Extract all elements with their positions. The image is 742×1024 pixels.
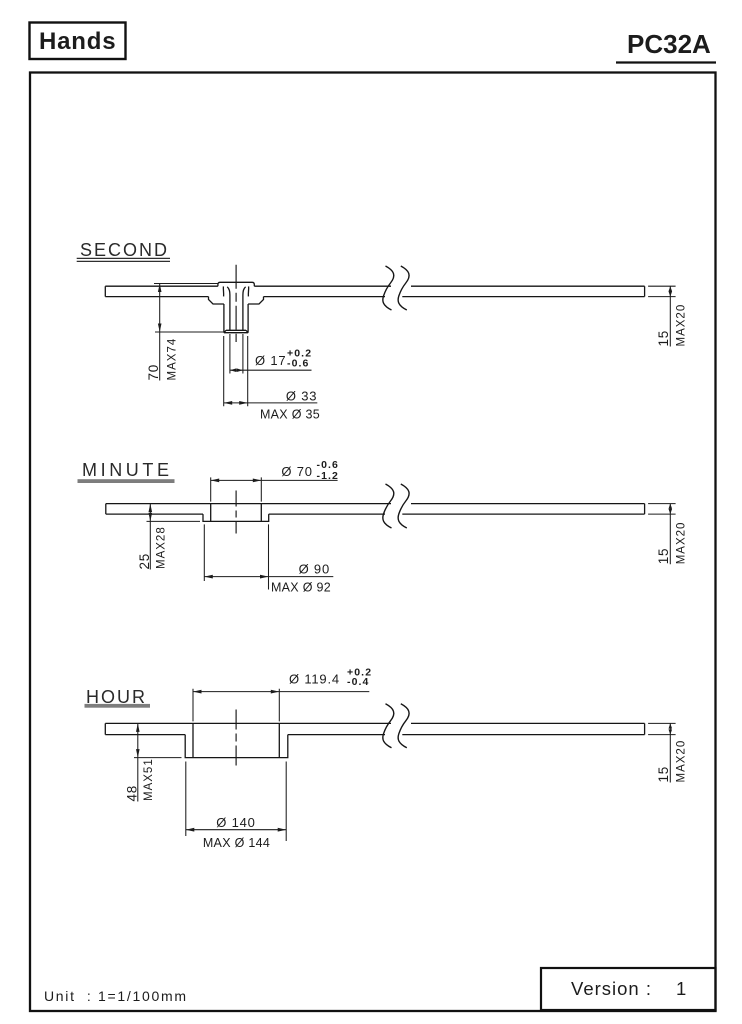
svg-text:48: 48: [124, 785, 139, 802]
minute hand bar: [106, 504, 645, 514]
svg-text:Ø 70: Ø 70: [281, 464, 312, 479]
svg-text:70: 70: [146, 364, 161, 381]
svg-text:Ø 90: Ø 90: [299, 561, 330, 576]
second hub tube: [224, 304, 248, 333]
model number underline: [616, 61, 716, 63]
dim Ø90 / MAX Ø92: [204, 524, 333, 589]
svg-text:-0.6: -0.6: [287, 358, 310, 370]
hour hand bar: [105, 723, 644, 734]
svg-text:MAX Ø 144: MAX Ø 144: [203, 836, 270, 850]
svg-text:Ø 17: Ø 17: [255, 353, 286, 368]
label underline: [85, 704, 151, 708]
svg-text:SECOND: SECOND: [80, 240, 169, 260]
hour centerline: [235, 710, 237, 768]
svg-text:Hands: Hands: [39, 28, 116, 55]
svg-text:Ø 140: Ø 140: [216, 815, 255, 830]
dim Ø140 / MAX Ø144: [186, 762, 286, 842]
svg-text:15: 15: [656, 766, 671, 783]
svg-text:Version :: Version :: [571, 978, 652, 999]
svg-text:15: 15: [656, 330, 671, 347]
dim 70/MAX74 left: [154, 284, 224, 381]
dim 15/MAX20 right: [648, 723, 676, 782]
second centerline: [235, 265, 237, 342]
svg-text:MAX20: MAX20: [675, 304, 687, 347]
label underline: [77, 257, 170, 259]
svg-text:MAX Ø 35: MAX Ø 35: [260, 407, 320, 421]
svg-text:MAX20: MAX20: [675, 740, 687, 783]
second hub bore: [227, 287, 245, 331]
svg-text:MAX20: MAX20: [675, 522, 687, 565]
svg-text:MAX Ø 92: MAX Ø 92: [271, 580, 331, 594]
svg-text:1: 1: [676, 978, 686, 999]
svg-text:15: 15: [656, 548, 671, 565]
svg-text:PC32A: PC32A: [627, 29, 711, 59]
svg-text:-1.2: -1.2: [317, 470, 340, 482]
second hub neck: [223, 286, 248, 296]
svg-text:Unit : 1=1/100mm: Unit : 1=1/100mm: [44, 988, 188, 1004]
dim 15/MAX20 right: [648, 504, 676, 565]
dim 48/MAX51 left: [134, 723, 182, 801]
second hub cap: [218, 282, 254, 286]
minute centerline: [235, 491, 237, 534]
hour break squiggle: [383, 704, 409, 748]
label underline: [78, 479, 175, 483]
second hub flange: [209, 297, 264, 304]
svg-text:-0.4: -0.4: [347, 676, 370, 688]
svg-text:MAX74: MAX74: [167, 338, 179, 381]
svg-text:25: 25: [137, 553, 152, 570]
second hand bar: [105, 286, 644, 296]
svg-text:Ø 119.4: Ø 119.4: [289, 672, 340, 687]
svg-text:MAX28: MAX28: [156, 526, 168, 569]
dim 25/MAX28 left: [147, 504, 201, 570]
dim Ø119.4 top: [193, 689, 369, 722]
dim Ø70 top: [211, 477, 338, 501]
minute hub hole: [211, 504, 262, 522]
svg-text:MINUTE: MINUTE: [82, 460, 173, 480]
minute hub boss: [203, 514, 269, 521]
second break squiggle: [383, 266, 409, 310]
svg-text:MAX51: MAX51: [143, 758, 155, 801]
dim Ø33 / MAX Ø35: [224, 336, 318, 406]
dim Ø17: [230, 334, 312, 374]
minute break squiggle: [383, 484, 409, 528]
version box: [541, 968, 716, 1010]
dim 15/MAX20 right: [648, 286, 676, 346]
svg-text:Ø 33: Ø 33: [286, 389, 317, 404]
title box Hands: [30, 23, 126, 60]
hour hub hole: [193, 723, 279, 757]
hour hub boss: [185, 735, 288, 758]
